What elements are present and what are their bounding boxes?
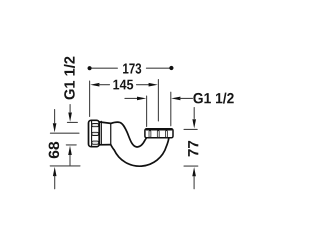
dimension 145 arrow right xyxy=(149,83,158,87)
dimension 173 dot left xyxy=(88,66,92,70)
top nut groove 1 xyxy=(149,131,151,138)
left nut thread dimension down arrow xyxy=(68,113,72,122)
dimension 173 dot right xyxy=(169,66,173,70)
nut width dimension line leader right xyxy=(180,97,193,99)
top nut groove 3 xyxy=(166,131,168,138)
dimension 68 down arrow line xyxy=(54,110,56,123)
nut width extension tick left xyxy=(146,96,148,127)
dimension 173 line right xyxy=(146,67,169,69)
label G1 1/2 right xyxy=(193,93,233,104)
left nut thread dimension up arrow xyxy=(68,146,72,155)
dimension 77 up arrow xyxy=(192,167,196,176)
top nut body xyxy=(145,129,173,138)
left nut thread dimension up arrow tail xyxy=(69,155,71,166)
dimension 68 up arrow tail xyxy=(54,176,56,189)
nut width dimension arrow pointing left xyxy=(171,97,180,101)
dimension 77 up arrow tail xyxy=(193,176,195,189)
dimension 77 tick top xyxy=(184,128,197,130)
dimension 145 value label xyxy=(113,80,133,90)
trap body outer wall xyxy=(111,138,169,166)
inlet cone top edge xyxy=(99,122,111,124)
left nut groove 3 xyxy=(92,141,99,144)
left nut groove 2 xyxy=(92,132,99,135)
dimension 77 down arrow xyxy=(192,119,196,128)
left nut thread tick top xyxy=(67,121,77,123)
trap body inner wall xyxy=(111,122,149,147)
dimension 68 value label rotated xyxy=(49,142,60,158)
nut width extension tick right xyxy=(170,92,172,126)
top nut groove 2 xyxy=(157,131,159,138)
dimension 145 extension line left xyxy=(89,81,91,117)
inlet cone inner vertical line xyxy=(100,121,102,144)
left nut groove 1 xyxy=(92,124,99,127)
left nut thread tick bottom xyxy=(66,144,76,146)
nut width dimension line leader left xyxy=(125,97,138,99)
left nut body xyxy=(89,120,100,146)
dimension 68 tick top xyxy=(50,132,79,134)
dimension 173 value label xyxy=(123,63,141,73)
inlet cone joint vertical line xyxy=(110,123,112,144)
dimension 68 up arrow xyxy=(53,167,57,176)
label G1 1/2 left rotated xyxy=(64,57,75,100)
nut width dimension arrow pointing right xyxy=(137,97,146,101)
left nut thread dimension down arrow line xyxy=(69,105,71,113)
dimension 173 line left xyxy=(92,67,118,69)
dimension 77 tick bottom xyxy=(184,165,198,167)
top nut top edge thick line xyxy=(146,129,171,131)
inlet cone bottom edge xyxy=(99,144,111,146)
dimension 145 extension line right xyxy=(157,80,159,122)
dimension 145 line left xyxy=(99,84,110,86)
dimension 145 line right xyxy=(137,84,150,86)
dimension 77 down arrow line xyxy=(193,108,195,119)
dimension 68 down arrow xyxy=(53,123,57,132)
dimension 68 tick bottom xyxy=(50,165,80,167)
dimension 145 arrow left xyxy=(90,83,99,87)
dimension 77 value label rotated xyxy=(188,141,198,157)
left nut cap band line xyxy=(91,121,93,147)
